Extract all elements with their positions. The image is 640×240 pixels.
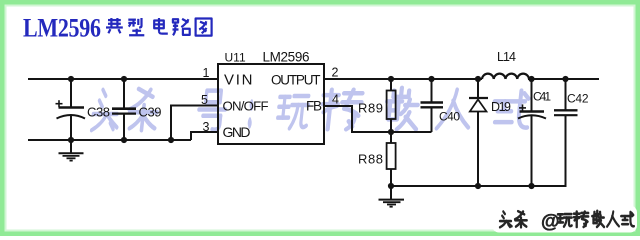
diode D19: [469, 79, 511, 186]
svg-text:GND: GND: [223, 124, 251, 140]
svg-text:@: @: [541, 212, 560, 233]
wire pin5 ON/OFF: [171, 105, 218, 107]
svg-text:OUTPUT: OUTPUT: [271, 73, 321, 88]
svg-text:L14: L14: [497, 50, 516, 64]
svg-text:C42: C42: [567, 92, 589, 106]
svg-text:R88: R88: [358, 152, 383, 167]
IC U11 LM2596 regulator box: [218, 64, 324, 144]
capacitor C42: [554, 79, 589, 186]
wire input bottom rail: [28, 139, 191, 141]
resistor R89: [358, 79, 396, 132]
svg-text:R89: R89: [358, 101, 383, 116]
title text LM2596典型电路图: [23, 14, 212, 43]
wire input top rail: [28, 78, 218, 80]
svg-text:2: 2: [332, 66, 339, 80]
svg-text:LM2596: LM2596: [23, 14, 101, 43]
svg-text:4: 4: [332, 93, 339, 107]
svg-text:3: 3: [203, 120, 210, 134]
svg-text:C40: C40: [439, 110, 460, 124]
svg-text:FB: FB: [306, 99, 322, 114]
svg-text:D19: D19: [491, 100, 511, 114]
wire output top rail (left of inductor): [324, 78, 482, 80]
node C38 bottom: [68, 137, 74, 143]
watermark text 头条号：玩转嵌入式 (center, lavender): [91, 88, 531, 130]
ground (output): [379, 186, 405, 207]
node C40 top: [428, 76, 434, 82]
svg-text:1: 1: [203, 66, 210, 80]
node C42 top: [562, 76, 568, 82]
svg-text:LM2596: LM2596: [263, 50, 310, 65]
node C41 bottom: [528, 183, 534, 189]
node L14 right / C41 top: [528, 76, 534, 82]
capacitor C38 (polarized): [56, 79, 111, 140]
node D19 bottom: [475, 183, 481, 189]
node FB junction: [388, 129, 394, 135]
svg-text:U11: U11: [225, 51, 246, 65]
node C38 top: [68, 76, 74, 82]
wire FB net: [324, 106, 432, 132]
svg-text:ON/OFF: ON/OFF: [223, 99, 269, 114]
node R88 bottom / ground: [388, 183, 394, 189]
svg-text:C38: C38: [87, 105, 110, 120]
node C39 top: [121, 76, 127, 82]
svg-text:VIN: VIN: [224, 72, 253, 89]
wire output bottom rail: [391, 185, 567, 187]
svg-text:C39: C39: [139, 105, 162, 120]
node pin5 bottom junction: [168, 137, 174, 143]
capacitor C41 (polarized): [518, 79, 551, 186]
capacitor C39: [112, 79, 162, 140]
svg-text:5: 5: [201, 93, 208, 107]
capacitor C40: [421, 79, 461, 132]
wire output top rail (right of inductor): [528, 78, 599, 80]
node D19 top: [475, 76, 481, 82]
resistor R88: [358, 132, 396, 186]
node C39 bottom: [121, 137, 127, 143]
inductor L14: [482, 50, 529, 79]
wire pin3 GND step: [191, 132, 218, 140]
node R89 top: [388, 76, 394, 82]
watermark text 头条@玩转嵌入式 (bottom right): [492, 206, 637, 233]
svg-text:C41: C41: [533, 90, 551, 104]
ground (input): [59, 140, 84, 161]
